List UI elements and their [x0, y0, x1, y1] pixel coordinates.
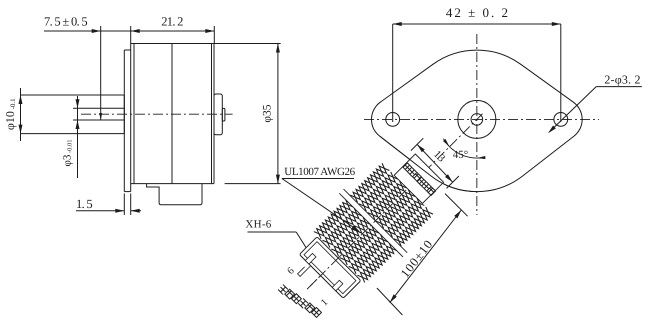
svg-text:φ35: φ35	[262, 104, 274, 122]
svg-text:XH-6: XH-6	[245, 219, 271, 231]
svg-text:42 ± 0. 2: 42 ± 0. 2	[446, 5, 510, 20]
svg-text:7. 5 ± 0. 5: 7. 5 ± 0. 5	[44, 15, 87, 29]
svg-text:1. 5: 1. 5	[76, 197, 92, 211]
svg-text:2-φ3. 2: 2-φ3. 2	[604, 73, 640, 87]
svg-text:UL1007 AWG26: UL1007 AWG26	[284, 166, 355, 178]
svg-text:45°: 45°	[453, 149, 468, 161]
svg-text:21. 2: 21. 2	[161, 15, 183, 29]
